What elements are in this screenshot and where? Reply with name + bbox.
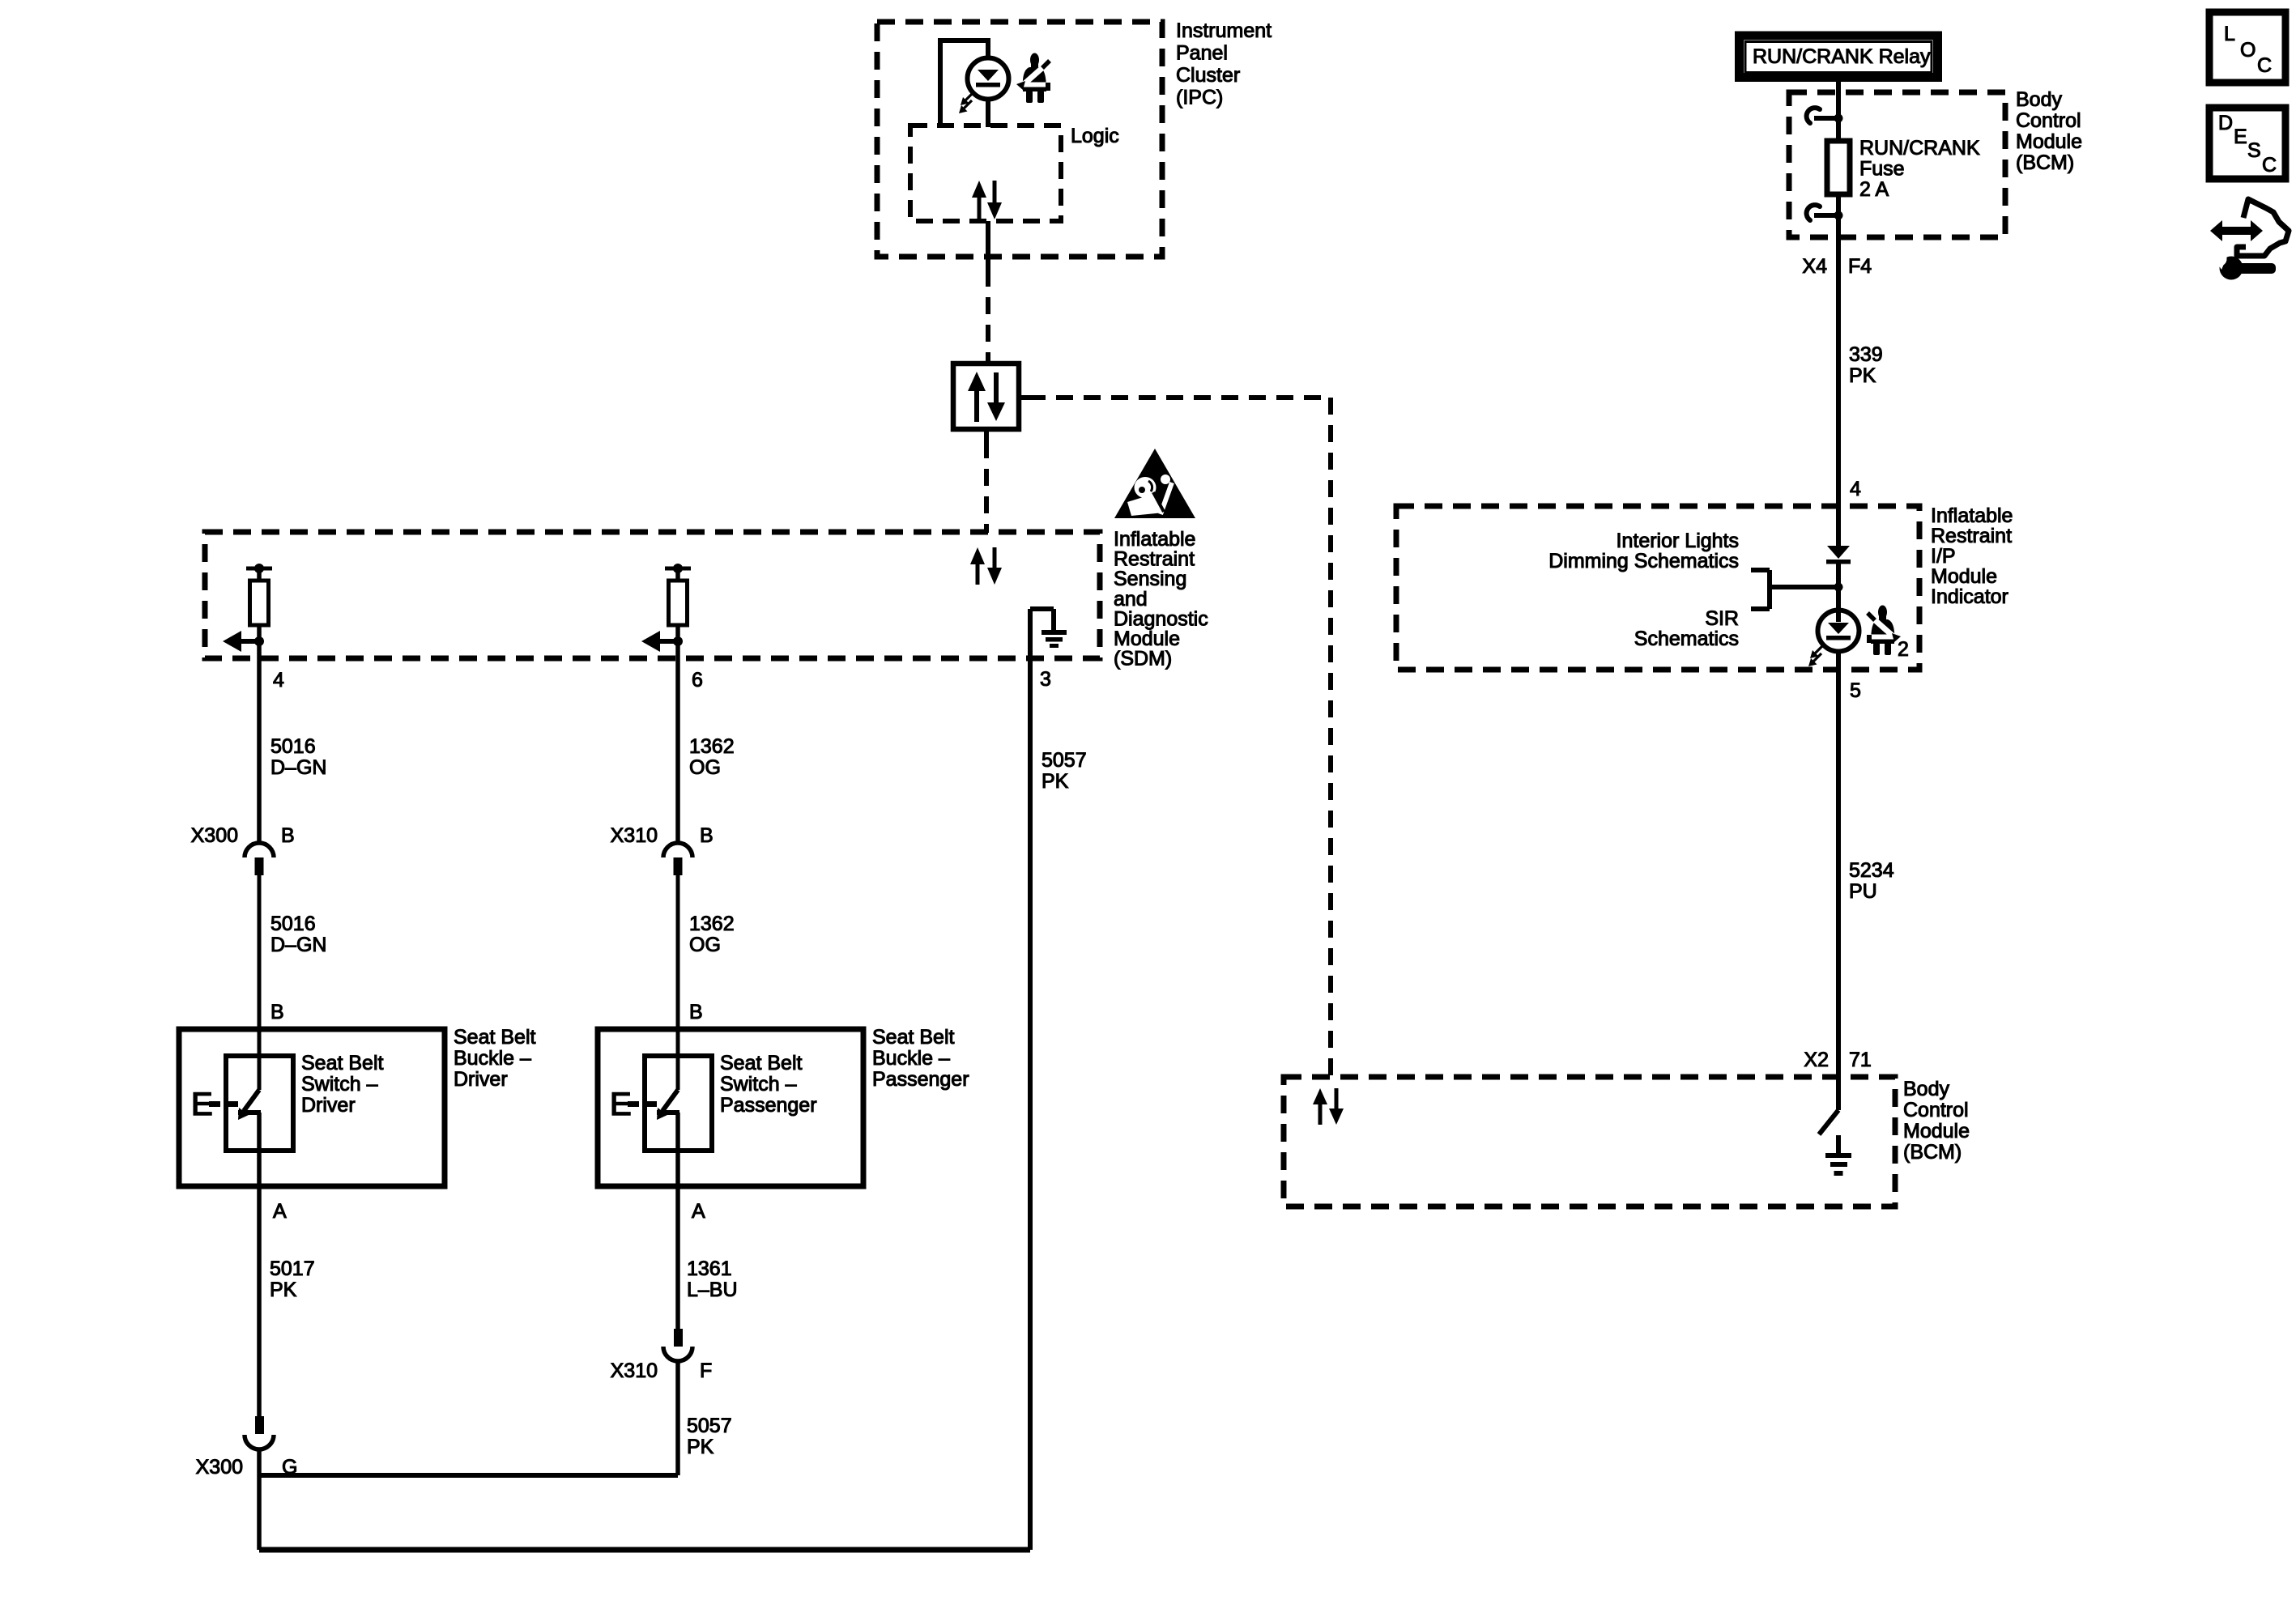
connector X310-B in-line symbol <box>663 843 692 875</box>
svg-text:(BCM): (BCM) <box>2016 151 2074 174</box>
connector label: X310 pin B <box>611 824 714 847</box>
node: passenger sense junction dot <box>673 625 683 646</box>
svg-text:X300: X300 <box>191 824 238 847</box>
ground: BCM internal ground <box>1825 1135 1851 1176</box>
arrow: passenger sense to other circuits <box>641 631 678 652</box>
node: driver sense junction dot <box>254 625 264 646</box>
fuse: RUN/CRANK Fuse 2 A <box>1827 141 1850 194</box>
svg-text:L: L <box>2224 23 2235 45</box>
label: Seat Belt Switch - Passenger <box>720 1052 817 1117</box>
svg-text:Control: Control <box>1903 1099 1969 1121</box>
svg-text:B: B <box>281 824 295 847</box>
diode: indicator blocking diode <box>1826 546 1851 564</box>
wire: below X300-G down to ground splice run <box>257 1449 262 1550</box>
svg-text:Driver: Driver <box>454 1068 508 1091</box>
svg-text:Seat Belt: Seat Belt <box>872 1026 955 1049</box>
label: SIR Schematics <box>1634 607 1739 650</box>
power label box: RUN/CRANK Relay <box>1740 36 1938 78</box>
light emission arrows of IPC LED <box>959 92 973 113</box>
LED indicator circle (IPC seat belt lamp) <box>968 58 1009 100</box>
svg-text:5016: 5016 <box>270 913 316 935</box>
svg-text:5234: 5234 <box>1849 859 1894 882</box>
arrow: driver sense to other circuits <box>223 631 259 652</box>
svg-text:Buckle –: Buckle – <box>454 1047 531 1070</box>
wire label: 5016 D-GN (upper) <box>270 735 326 779</box>
wire: 5016 from X300-B to driver buckle switch pin B <box>258 875 262 1090</box>
svg-text:Panel: Panel <box>1176 42 1228 65</box>
svg-text:PU: PU <box>1849 880 1877 903</box>
svg-text:B: B <box>270 1001 284 1023</box>
module box: Inflatable Restraint Sensing and Diagnostic Module (SDM), dashed <box>205 532 1100 658</box>
module box: Instrument Panel Cluster (IPC), dashed <box>877 22 1162 257</box>
wire: 1361 L-BU from passenger switch pin A to X310-F <box>675 1113 680 1329</box>
connector X300-B in-line symbol <box>245 843 274 875</box>
wire label: 5017 PK <box>270 1257 315 1301</box>
svg-text:5017: 5017 <box>270 1257 315 1280</box>
component box: Seat Belt Buckle - Driver <box>179 1029 445 1186</box>
svg-text:Body: Body <box>2016 88 2062 111</box>
actuator label E with dashed link (driver) <box>191 1087 238 1122</box>
svg-text:Cluster: Cluster <box>1176 64 1240 87</box>
svg-text:2 A: 2 A <box>1859 178 1889 201</box>
svg-text:Switch –: Switch – <box>720 1073 797 1096</box>
icon: hand with double arrow and wrench (service action) <box>2210 199 2289 280</box>
svg-text:C: C <box>2257 54 2272 77</box>
label: Inflatable Restraint Sensing and Diagnostic Module (SDM) <box>1114 528 1208 670</box>
svg-text:X300: X300 <box>196 1456 243 1479</box>
connector X300-G in-line symbol <box>245 1416 274 1449</box>
connector label: X310 pin F <box>611 1360 713 1382</box>
svg-text:Seat Belt: Seat Belt <box>454 1026 536 1049</box>
svg-text:X2: X2 <box>1804 1049 1829 1071</box>
svg-text:OG: OG <box>689 756 721 779</box>
svg-text:3: 3 <box>1040 668 1051 691</box>
svg-text:PK: PK <box>1849 364 1876 387</box>
wire: bottom ground run joining X300-G wire to SDM 5057 PK <box>259 1547 1030 1553</box>
serial data interface box <box>953 364 1019 429</box>
resistor: SDM passenger seat belt pull-up, top tie bar <box>665 564 691 581</box>
resistor R (driver sense) <box>250 581 269 625</box>
svg-text:D–GN: D–GN <box>270 934 326 956</box>
svg-text:Interior Lights: Interior Lights <box>1617 530 1739 552</box>
svg-text:A: A <box>273 1200 287 1223</box>
svg-text:Schematics: Schematics <box>1634 628 1739 650</box>
svg-text:4: 4 <box>273 669 284 691</box>
sub-box: Logic (IPC), dashed <box>910 126 1061 221</box>
svg-text:339: 339 <box>1849 343 1883 366</box>
wire: dimming feed horizontal with reference bracket <box>1751 570 1838 609</box>
svg-text:Logic: Logic <box>1071 125 1119 147</box>
svg-text:PK: PK <box>687 1436 714 1458</box>
wire: LED cathode stub to Logic box <box>986 99 990 127</box>
icon: seat belt person 2 (indicator, mirrored) <box>1867 606 1901 656</box>
wire label: 5057 PK (passenger side) <box>687 1415 732 1458</box>
svg-text:F: F <box>700 1360 712 1382</box>
wire: dashed data line from interface box right and down to BCM <box>1019 398 1331 1077</box>
svg-text:Instrument: Instrument <box>1176 19 1272 42</box>
light emission arrows of indicator LED <box>1808 645 1823 666</box>
connector label: X4 / F4 <box>1802 255 1872 278</box>
svg-text:B: B <box>689 1001 703 1023</box>
label: Seat Belt Switch - Driver <box>301 1052 384 1117</box>
svg-text:O: O <box>2240 39 2256 62</box>
wire: passenger circuit 1362 from SDM pin 6 to connector X310 <box>675 641 680 843</box>
fuse clip upper with junction dot <box>1807 108 1843 123</box>
svg-text:RUN/CRANK: RUN/CRANK <box>1859 137 1980 160</box>
wire: circuit 5234 PU from indicator pin 5 to BCM X2-71 <box>1836 652 1841 1110</box>
connector label: X300 pin G <box>196 1456 298 1479</box>
resistor R (passenger sense) <box>669 581 688 625</box>
svg-text:Body: Body <box>1903 1078 1949 1100</box>
sub-box: Seat Belt Switch - Driver <box>226 1056 293 1151</box>
wire: solid stub below Logic box <box>986 221 990 270</box>
svg-text:Passenger: Passenger <box>872 1068 969 1091</box>
diode symbol inside IPC LED <box>976 70 1000 87</box>
wire label: 5234 PU <box>1849 859 1894 903</box>
svg-text:1362: 1362 <box>689 913 735 935</box>
svg-text:Passenger: Passenger <box>720 1094 817 1117</box>
svg-text:X310: X310 <box>611 1360 658 1382</box>
node: dimming feed junction dot <box>1834 583 1843 592</box>
wire: 5017 PK from driver switch pin A to X300-G <box>257 1113 262 1416</box>
label: Instrument Panel Cluster (IPC) <box>1176 19 1272 109</box>
svg-text:OG: OG <box>689 934 721 956</box>
svg-text:SIR: SIR <box>1705 607 1739 630</box>
svg-text:Fuse: Fuse <box>1859 158 1905 181</box>
svg-text:Buckle –: Buckle – <box>872 1047 950 1070</box>
label: Inflatable Restraint I/P Module Indicator <box>1931 504 2013 608</box>
svg-text:X4: X4 <box>1802 255 1827 278</box>
wire label: 5057 PK (from SDM pin 3) <box>1042 749 1087 793</box>
reference box: DESC <box>2209 108 2285 179</box>
svg-text:1362: 1362 <box>689 735 735 758</box>
wire label: 1362 OG (upper) <box>689 735 735 779</box>
svg-text:(IPC): (IPC) <box>1176 87 1223 109</box>
svg-text:Driver: Driver <box>301 1094 356 1117</box>
svg-text:71: 71 <box>1849 1049 1872 1071</box>
svg-text:Control: Control <box>2016 109 2081 132</box>
svg-text:Dimming Schematics: Dimming Schematics <box>1548 550 1739 572</box>
wire: below fuse to BCM edge <box>1836 194 1841 237</box>
wire label: 339 PK <box>1849 343 1883 387</box>
wire: dashed data line from interface box down to SDM <box>984 429 989 533</box>
svg-text:L–BU: L–BU <box>687 1279 738 1301</box>
serial data arrows inside interface box <box>968 372 1005 422</box>
wire: junction to indicator LED <box>1836 564 1841 622</box>
switch: driver seat belt switch blade and contact <box>238 1090 261 1120</box>
svg-text:I/P: I/P <box>1931 545 1956 568</box>
svg-text:E: E <box>2234 126 2247 148</box>
svg-text:Restraint: Restraint <box>1931 525 2012 547</box>
wire: splice run joining passenger 5057 to X300-G wire <box>259 1473 678 1478</box>
wire: dashed data line from IPC to serial-data box <box>986 270 990 364</box>
svg-text:1361: 1361 <box>687 1257 732 1280</box>
svg-text:Inflatable: Inflatable <box>1931 504 2013 527</box>
serial data arrows inside SDM <box>970 547 1002 585</box>
module box: Inflatable Restraint I/P Module Indicator, dashed <box>1396 506 1919 670</box>
svg-text:Module: Module <box>1903 1120 1970 1143</box>
svg-text:5: 5 <box>1850 679 1861 702</box>
svg-text:5057: 5057 <box>687 1415 732 1437</box>
serial data arrows inside bottom BCM <box>1313 1088 1344 1125</box>
serial data arrows inside Logic box <box>972 181 1002 219</box>
svg-text:Indicator: Indicator <box>1931 585 2008 608</box>
label: Body Control Module (BCM) bottom <box>1903 1078 1970 1164</box>
wire label: 1362 OG (lower) <box>689 913 735 956</box>
wire label: 5016 D-GN (lower) <box>270 913 326 956</box>
svg-text:X310: X310 <box>611 824 658 847</box>
svg-text:Module: Module <box>2016 130 2082 153</box>
svg-text:4: 4 <box>1850 478 1861 500</box>
svg-text:Seat Belt: Seat Belt <box>301 1052 384 1074</box>
svg-text:PK: PK <box>270 1279 297 1301</box>
svg-text:C: C <box>2262 154 2277 177</box>
module box: Body Control Module (BCM) bottom, dashed <box>1284 1077 1895 1206</box>
resistor: SDM driver seat belt pull-up, top tie bar <box>246 564 272 581</box>
svg-text:5057: 5057 <box>1042 749 1087 772</box>
svg-text:(BCM): (BCM) <box>1903 1141 1962 1164</box>
svg-text:S: S <box>2247 139 2261 162</box>
label: Seat Belt Buckle - Driver <box>454 1026 536 1091</box>
label: Body Control Module (BCM) top <box>2016 88 2082 174</box>
svg-text:Seat Belt: Seat Belt <box>720 1052 803 1074</box>
svg-text:5016: 5016 <box>270 735 316 758</box>
component box: Seat Belt Buckle - Passenger <box>598 1029 863 1186</box>
label: RUN/CRANK Fuse 2 A <box>1859 137 1980 201</box>
reference box: LOC <box>2209 12 2285 83</box>
switch: passenger seat belt switch blade and contact <box>657 1090 679 1120</box>
module box: Body Control Module (BCM) top, dashed <box>1789 92 2005 237</box>
wire label: 1361 L-BU <box>687 1257 738 1301</box>
wire: circuit 339 PK from BCM X4-F4 to indicator pin 4 <box>1836 237 1841 547</box>
wire: 5057 PK vertical run from SDM pin 3 to bottom junction <box>1028 658 1033 1550</box>
actuator label E with dashed link (passenger) <box>610 1087 657 1122</box>
sub-box: Seat Belt Switch - Passenger <box>645 1056 712 1151</box>
ground: SDM internal chassis ground <box>1042 609 1067 648</box>
LED: inflatable restraint indicator lamp <box>1818 611 1859 652</box>
wire: LED frame loop in IPC <box>940 40 988 127</box>
svg-text:2: 2 <box>1898 638 1909 661</box>
wire: driver circuit 5016 from SDM pin 4 to connector X300 <box>257 641 262 843</box>
svg-text:Module: Module <box>1931 565 1997 588</box>
label: Seat Belt Buckle - Passenger <box>872 1026 969 1091</box>
svg-text:A: A <box>692 1200 705 1223</box>
wire: 1362 from X310-B to passenger buckle switch pin B <box>676 875 680 1090</box>
label: Interior Lights Dimming Schematics <box>1548 530 1739 572</box>
icon: SIR warning triangle <box>1114 449 1195 518</box>
wire: SDM pin 3 internal ground wire <box>1030 609 1054 658</box>
svg-text:(SDM): (SDM) <box>1114 648 1172 670</box>
switch: BCM low-side driver (open switch to ground) <box>1819 1110 1838 1134</box>
wire: 5057 PK from X310-F down <box>675 1361 680 1475</box>
connector label: X300 pin B <box>191 824 295 847</box>
connector label: X2 / 71 <box>1804 1049 1871 1071</box>
svg-text:D–GN: D–GN <box>270 756 326 779</box>
svg-text:F4: F4 <box>1848 255 1872 278</box>
wire: feed from RUN/CRANK relay into BCM fuse <box>1836 82 1841 141</box>
connector X310-F in-line symbol <box>663 1329 692 1361</box>
icon: seat belt person (IPC) <box>1016 53 1050 104</box>
svg-text:Switch –: Switch – <box>301 1073 378 1096</box>
svg-text:PK: PK <box>1042 770 1069 793</box>
svg-text:6: 6 <box>692 669 703 691</box>
fuse clip lower with junction dot <box>1807 205 1843 220</box>
svg-text:RUN/CRANK Relay: RUN/CRANK Relay <box>1753 45 1931 68</box>
svg-text:B: B <box>700 824 714 847</box>
svg-text:D: D <box>2218 112 2233 134</box>
